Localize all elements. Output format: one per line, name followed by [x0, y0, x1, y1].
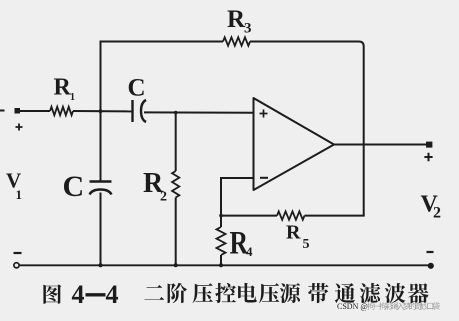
svg-text:R: R — [54, 75, 72, 101]
junction R2 top — [174, 111, 178, 115]
output + mark — [424, 153, 432, 161]
watermark 妙 — [421, 302, 429, 310]
junction R4/R5 — [219, 214, 223, 218]
watermark 入 — [397, 303, 405, 310]
wire op-amp output — [334, 144, 426, 146]
wire - input down to R4/R5 junction — [220, 177, 222, 227]
caption 阶 — [168, 283, 187, 303]
caption 压 — [259, 283, 279, 303]
svg-text:1: 1 — [70, 92, 75, 103]
watermark 拘 — [379, 302, 386, 310]
wire R4 to ground rail — [220, 255, 222, 265]
resistor R2 — [172, 171, 179, 198]
caption 二 — [144, 285, 164, 300]
svg-text:CSDN @: CSDN @ — [337, 302, 368, 311]
caption 图 — [43, 284, 61, 303]
svg-text:C: C — [63, 170, 85, 203]
caption 压 — [193, 283, 213, 303]
watermark 彩 — [385, 302, 393, 310]
resistor R5 — [277, 211, 305, 219]
caption 波 — [385, 283, 406, 303]
bottom-right terminal (circle) — [428, 263, 433, 268]
wire R5 to feedback line — [305, 215, 365, 217]
output terminal (square) — [426, 142, 432, 148]
bottom-left terminal (open circle) — [14, 263, 19, 268]
wire C to op-amp + input — [144, 111, 254, 113]
caption 源 — [280, 283, 300, 303]
op-amp - input sign — [260, 177, 268, 179]
input terminal (square) — [15, 108, 21, 114]
watermark 绳 — [391, 302, 399, 309]
node A vertical wire (to R3 top / to shunt C) — [100, 42, 102, 181]
junction shunt C ground — [99, 263, 103, 267]
top feedback wire to R3 — [100, 41, 224, 43]
wire R1 to node A — [73, 110, 132, 112]
bottom-left - mark — [14, 252, 22, 254]
svg-text:4: 4 — [246, 244, 253, 259]
watermark 的 — [409, 302, 416, 309]
caption 器 — [408, 283, 429, 303]
watermark 奇 — [415, 302, 422, 310]
junction node A — [99, 109, 103, 113]
caption 电 — [238, 283, 257, 303]
svg-text:1: 1 — [16, 187, 23, 202]
svg-text:R: R — [286, 222, 301, 244]
svg-text:2: 2 — [433, 205, 441, 222]
bottom-right - mark — [427, 251, 434, 253]
watermark 袋 — [432, 302, 440, 309]
wire R2 branch vertical — [175, 113, 177, 171]
caption 通 — [335, 283, 355, 303]
junction R4 ground — [219, 263, 223, 267]
wire junction to R5 — [221, 215, 277, 217]
watermark 口 — [427, 303, 433, 310]
shunt capacitor C top plate — [90, 180, 112, 182]
svg-text:4: 4 — [106, 280, 119, 309]
watermark 拘 — [367, 302, 374, 310]
caption 控 — [215, 283, 236, 303]
wire R3 to bend — [250, 42, 364, 216]
junction R2 ground — [174, 263, 178, 267]
wire stub at left edge — [0, 110, 5, 112]
capacitor C (series) right curved plate — [141, 100, 146, 122]
svg-text:C: C — [128, 75, 146, 102]
resistor R4 — [217, 227, 226, 255]
capacitor C (series) left plate — [131, 100, 133, 122]
wire R2 to ground rail — [175, 198, 177, 266]
wire op-amp - input — [221, 177, 254, 179]
input + mark — [16, 124, 23, 131]
ground rail — [19, 264, 429, 266]
op-amp U1 triangle — [254, 98, 335, 190]
watermark 一 — [373, 305, 381, 308]
shunt capacitor C bottom curved plate — [90, 190, 112, 195]
svg-text:4: 4 — [72, 280, 85, 309]
svg-text:2: 2 — [160, 190, 167, 205]
resistor R1 — [50, 107, 73, 115]
wire input to R1 — [17, 110, 50, 112]
svg-text:3: 3 — [244, 21, 252, 37]
caption 滤 — [360, 283, 381, 303]
svg-text:5: 5 — [303, 237, 310, 252]
caption 带 — [308, 283, 328, 303]
wire shunt C to ground rail — [100, 193, 102, 266]
resistor R3 — [223, 37, 250, 45]
op-amp + input sign — [260, 110, 268, 118]
watermark 梦 — [403, 302, 411, 310]
